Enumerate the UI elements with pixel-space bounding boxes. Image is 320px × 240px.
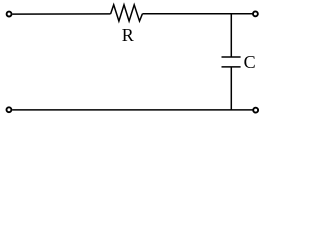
wire: capacitor bottom lead vertical [230,67,232,110]
capacitor C bottom plate [222,66,241,68]
wire: top horizontal right segment [142,13,252,15]
wire: capacitor top lead vertical [230,14,232,57]
resistor R [111,5,143,21]
wire: top horizontal left segment [12,13,110,15]
wire: bottom horizontal [12,109,252,111]
terminal: bottom-right [253,108,258,113]
capacitor C top plate [222,56,241,58]
terminal: top-left input [7,12,12,17]
terminal: top-right output [253,11,258,16]
terminal: bottom-left [7,107,12,112]
svg-text:C: C [244,52,256,72]
svg-text:R: R [122,25,134,45]
